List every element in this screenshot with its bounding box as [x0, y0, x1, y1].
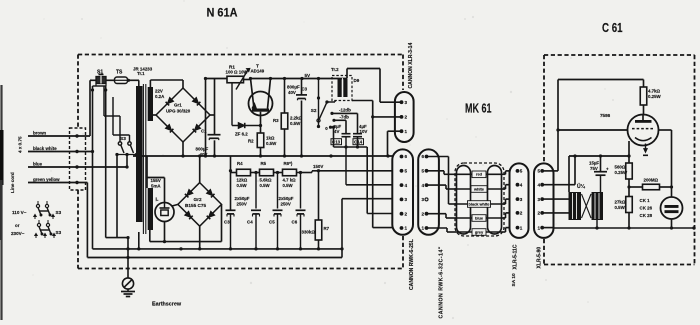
- svg-text:R6*): R6*): [284, 161, 293, 166]
- svg-text:R5: R5: [261, 161, 267, 166]
- svg-text:CANNON RWK-6-25L: CANNON RWK-6-25L: [409, 239, 415, 290]
- svg-text:B155 C75: B155 C75: [185, 203, 207, 208]
- svg-text:3: 3: [422, 197, 425, 202]
- svg-text:4: 4: [405, 183, 408, 188]
- svg-text:green yellow: green yellow: [33, 177, 60, 182]
- svg-text:3: 3: [405, 197, 408, 202]
- svg-text:22V: 22V: [155, 89, 163, 94]
- svg-text:4.7kΩ: 4.7kΩ: [648, 89, 661, 94]
- svg-text:0.5W: 0.5W: [290, 121, 301, 126]
- svg-text:0.25W: 0.25W: [648, 94, 662, 99]
- svg-text:R2: R2: [248, 139, 254, 144]
- svg-text:C1: C1: [201, 128, 207, 133]
- svg-text:black white: black white: [33, 146, 57, 151]
- svg-text:C4: C4: [247, 220, 253, 225]
- svg-text:1: 1: [537, 225, 540, 230]
- svg-text:CANNON XLR-3-14: CANNON XLR-3-14: [408, 42, 414, 88]
- svg-text:XLR-5-90: XLR-5-90: [536, 247, 542, 269]
- svg-text:5: 5: [537, 169, 540, 174]
- svg-text:Tr.1: Tr.1: [137, 71, 145, 76]
- svg-text:1: 1: [405, 129, 408, 134]
- svg-text:Tr.2: Tr.2: [331, 67, 339, 72]
- svg-text:2: 2: [537, 211, 540, 216]
- svg-text:0.25W: 0.25W: [615, 170, 629, 175]
- svg-text:CK 26: CK 26: [640, 205, 653, 210]
- svg-text:blue: blue: [475, 215, 484, 220]
- svg-text:TS: TS: [116, 70, 123, 76]
- svg-text:1: 1: [520, 225, 523, 230]
- svg-text:4: 4: [537, 182, 540, 187]
- svg-text:27kΩ: 27kΩ: [615, 200, 626, 205]
- svg-text:S3: S3: [56, 210, 62, 215]
- svg-text:800µF: 800µF: [196, 146, 209, 151]
- svg-text:Gr2: Gr2: [194, 197, 202, 202]
- svg-text:C5: C5: [269, 220, 275, 225]
- svg-text:4 x 0.75: 4 x 0.75: [18, 136, 23, 153]
- svg-text:3: 3: [405, 100, 408, 105]
- svg-text:C 61: C 61: [602, 21, 623, 35]
- svg-text:MK 61: MK 61: [465, 101, 492, 115]
- svg-text:S3: S3: [120, 136, 126, 142]
- svg-text:5V: 5V: [305, 73, 312, 78]
- svg-text:Earthscrew: Earthscrew: [152, 302, 182, 308]
- svg-text:C3: C3: [224, 220, 230, 225]
- svg-text:4.7 kΩ: 4.7 kΩ: [283, 178, 297, 183]
- svg-text:0.5W: 0.5W: [237, 183, 248, 188]
- svg-text:5: 5: [422, 169, 425, 174]
- svg-text:CK 1: CK 1: [640, 198, 651, 203]
- svg-text:Gr1: Gr1: [174, 103, 182, 108]
- svg-text:R4: R4: [237, 161, 243, 166]
- svg-text:0.5W: 0.5W: [615, 205, 626, 210]
- svg-text:0.5W: 0.5W: [266, 141, 277, 146]
- svg-text:C3: C3: [302, 87, 308, 92]
- svg-text:110 V~: 110 V~: [12, 210, 27, 215]
- svg-text:D9: D9: [354, 78, 360, 83]
- svg-text:S3: S3: [56, 230, 62, 235]
- svg-text:2x50µF: 2x50µF: [235, 196, 250, 201]
- svg-text:2: 2: [422, 211, 425, 216]
- svg-text:1kΩ: 1kΩ: [266, 136, 275, 141]
- svg-text:CANNON RWK-6-32C-14": CANNON RWK-6-32C-14": [438, 246, 444, 318]
- svg-text:SA 10: SA 10: [511, 273, 517, 286]
- svg-text:40V: 40V: [288, 90, 296, 95]
- svg-text:CK 28: CK 28: [640, 213, 653, 218]
- svg-text:2: 2: [520, 211, 523, 216]
- svg-text:C13: C13: [332, 140, 341, 145]
- svg-text:C6: C6: [292, 220, 298, 225]
- svg-text:200MΩ: 200MΩ: [644, 178, 659, 183]
- svg-text:155V: 155V: [151, 178, 161, 183]
- svg-text:Ü¼: Ü¼: [577, 183, 586, 190]
- svg-text:330kΩ: 330kΩ: [302, 230, 316, 235]
- svg-text:5mA: 5mA: [151, 183, 161, 188]
- svg-text:white: white: [473, 186, 485, 191]
- svg-text:Line cord: Line cord: [10, 172, 15, 193]
- svg-text:250V: 250V: [281, 201, 291, 206]
- svg-text:R3: R3: [273, 118, 279, 123]
- svg-text:12kΩ: 12kΩ: [237, 178, 248, 183]
- svg-text:5: 5: [405, 169, 408, 174]
- svg-text:3: 3: [537, 197, 540, 202]
- svg-text:+: +: [606, 167, 609, 172]
- svg-text:red: red: [476, 172, 483, 177]
- svg-text:6: 6: [422, 154, 425, 159]
- svg-text:15µF: 15µF: [589, 161, 599, 166]
- svg-text:blue: blue: [33, 162, 43, 167]
- svg-text:230V~: 230V~: [11, 231, 25, 236]
- svg-text:2: 2: [405, 211, 408, 216]
- svg-text:4V: 4V: [334, 129, 339, 134]
- svg-text:2: 2: [405, 115, 408, 120]
- svg-text:-7db: -7db: [340, 115, 350, 120]
- svg-text:N 61A: N 61A: [207, 5, 238, 19]
- svg-text:2.2kΩ: 2.2kΩ: [290, 116, 303, 121]
- svg-text:4: 4: [520, 182, 523, 187]
- svg-text:250V: 250V: [237, 201, 247, 206]
- svg-text:800µF: 800µF: [287, 85, 300, 90]
- svg-text:1: 1: [405, 226, 408, 231]
- svg-text:black white: black white: [469, 201, 491, 206]
- svg-text:0.5W: 0.5W: [283, 183, 294, 188]
- svg-text:7586: 7586: [600, 113, 611, 118]
- svg-text:6: 6: [405, 154, 408, 159]
- svg-text:R7: R7: [324, 226, 330, 231]
- svg-text:S2: S2: [311, 108, 317, 113]
- svg-text:150V: 150V: [313, 164, 323, 169]
- svg-text:-12db: -12db: [339, 108, 351, 113]
- svg-text:XLR-5-11C: XLR-5-11C: [512, 244, 518, 269]
- svg-text:L: L: [156, 197, 159, 203]
- svg-text:0.5W: 0.5W: [260, 183, 271, 188]
- svg-text:5: 5: [520, 169, 523, 174]
- svg-text:560Ω: 560Ω: [615, 165, 626, 170]
- svg-text:1: 1: [422, 226, 425, 231]
- svg-text:AD149: AD149: [251, 69, 265, 74]
- svg-text:0.2A: 0.2A: [155, 94, 165, 99]
- svg-text:grey: grey: [475, 229, 484, 234]
- svg-text:or: or: [15, 223, 20, 228]
- svg-text:ZF 6.2: ZF 6.2: [235, 132, 248, 137]
- svg-text:UPG 30/320: UPG 30/320: [166, 109, 191, 114]
- svg-text:brown: brown: [33, 131, 46, 136]
- svg-text:C14: C14: [354, 140, 363, 145]
- svg-text:75V: 75V: [590, 166, 598, 171]
- svg-text:4: 4: [422, 183, 425, 188]
- svg-text:5.6kΩ: 5.6kΩ: [260, 178, 272, 183]
- svg-text:3: 3: [520, 197, 523, 202]
- svg-text:2x50µF: 2x50µF: [279, 196, 294, 201]
